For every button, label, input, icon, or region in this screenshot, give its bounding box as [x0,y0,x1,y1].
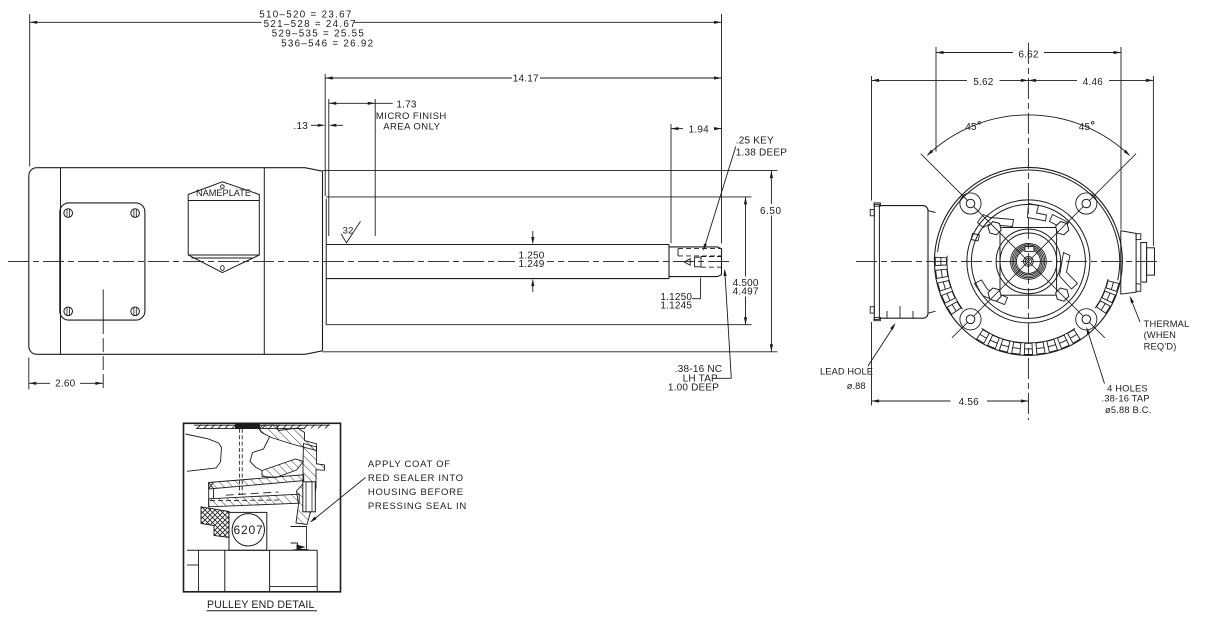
svg-text:PRESSING SEAL IN: PRESSING SEAL IN [368,501,467,512]
detail: hex bolt right [303,482,316,512]
svg-text:ø5.88 B.C.: ø5.88 B.C. [1105,405,1151,415]
extension line at flange face [324,74,326,196]
end view outer inner circle (smooth top arc) [938,170,1120,280]
thermal housing [1121,231,1155,294]
note 4 HOLES .38-16 TAP 5.88 B.C. with leader [1086,327,1151,415]
svg-text:AREA ONLY: AREA ONLY [383,122,440,133]
motor body (side view) [29,168,323,355]
dimension 6.50 [760,171,782,352]
svg-text:1.94: 1.94 [689,124,710,135]
svg-text:(WHEN: (WHEN [1144,330,1177,340]
detail: bell housing section (hatched) [250,425,325,487]
extension line micro finish end [374,99,376,236]
svg-text:.38-16 TAP: .38-16 TAP [1102,394,1150,404]
svg-text:.13: .13 [293,121,308,132]
svg-text:14.17: 14.17 [513,74,539,85]
detail: seal block left (cross hatched) [201,507,229,538]
dimension 5.62 [872,76,1029,201]
note MICRO FINISH AREA ONLY [376,111,447,133]
dimension .13 [293,121,343,132]
shaft [326,245,721,279]
dimension 4.56 [872,322,1029,408]
svg-text:MICRO FINISH: MICRO FINISH [376,111,447,122]
detail: bottom housing lines [187,550,317,591]
hub circles [996,229,1061,294]
svg-text:1.249: 1.249 [518,259,544,270]
dimension 1.250 / 1.249 shaft diameter [515,231,547,292]
svg-text:4.497: 4.497 [733,287,759,298]
svg-text:6.62: 6.62 [1018,49,1039,60]
svg-text:4 HOLES: 4 HOLES [1107,383,1148,393]
svg-text:1.73: 1.73 [396,100,417,111]
svg-text:1.00 DEEP: 1.00 DEEP [668,383,719,394]
svg-text:5.62: 5.62 [973,77,994,88]
svg-text:REQ'D): REQ'D) [1144,342,1177,352]
detail: frame section top band [194,424,330,429]
svg-text:536–546 = 26.92: 536–546 = 26.92 [281,38,374,49]
dimension 14.17 [325,74,721,85]
extension line micro finish start [328,99,330,236]
extension line at shaft end [721,14,723,244]
pulley end detail title [207,599,318,611]
svg-text:45: 45 [1079,122,1091,133]
dimension frame lengths 23.67/24.67/25.55/26.92 [30,9,722,49]
extension lines 4.500 dia [326,196,751,198]
pulley end detail border [184,423,341,592]
dimension 4.46 [1028,76,1153,246]
note .25 KEY 1.38 DEEP with leader [703,136,787,252]
end view outer circle [934,167,1122,355]
svg-text:NAMEPLATE: NAMEPLATE [196,188,251,198]
extension line left (frame dims) [29,14,31,167]
svg-text:4.46: 4.46 [1083,77,1104,88]
svg-text:1.1245: 1.1245 [660,300,692,311]
svg-text:2.60: 2.60 [55,379,76,390]
svg-text:6207: 6207 [234,523,264,537]
tap hole at shaft end [684,257,721,268]
square around hub [1000,228,1057,296]
hex bolts [988,222,1069,302]
end view vertical centerline [1027,43,1029,420]
svg-text:6.50: 6.50 [760,206,782,217]
detail: tapered sleeve (hatched) [209,475,304,507]
svg-text:LEAD HOLE: LEAD HOLE [820,367,873,377]
detail: tap hidden lines [239,429,242,495]
svg-text:45: 45 [965,122,977,133]
svg-text:HOUSING BEFORE: HOUSING BEFORE [368,487,464,498]
detail: bearing 6207 [229,512,267,550]
note THERMAL WHEN REQD with leader [1130,296,1190,352]
surface finish symbol 32 [341,221,361,242]
svg-text:THERMAL: THERMAL [1144,319,1190,329]
note .38-16 NC LH TAP 1.00 DEEP with leader [668,269,731,394]
svg-text:4.56: 4.56 [959,397,980,408]
svg-text:APPLY COAT OF: APPLY COAT OF [368,459,451,470]
dimension 45 deg arc [927,115,1131,156]
dimension 1.1250 / 1.1245 with leader [660,278,700,312]
bearing circles [1011,244,1047,280]
svg-text:RED SEALER INTO: RED SEALER INTO [368,473,464,484]
detail: frame left profile [186,434,222,471]
cooling fins [935,256,1119,355]
detail: shaft hidden edges [210,499,280,502]
note APPLY COAT OF RED SEALER with leader [310,459,467,522]
nameplate [188,182,259,273]
svg-text:PULLEY END DETAIL: PULLEY END DETAIL [207,599,315,611]
note LEAD HOLE .88 with leader [820,323,896,391]
conduit box (end view) [870,203,935,321]
keyway in bore [1025,247,1034,252]
dimension 1.73 micro finish [329,100,417,111]
dimension 4.500 / 4.497 [733,197,759,325]
bolt holes with bosses [960,193,1097,330]
dimension 1.94 [671,124,722,135]
keyway hidden lines [678,249,722,256]
vent slots [971,204,1078,305]
extension lines 6.50 dia [323,170,778,172]
diagonal centerlines 45 deg [921,154,1136,338]
flange face line [325,199,327,325]
conduit box centerline (dashed) [102,320,104,389]
conduit box (side view) [60,203,145,320]
detail: seal pocket right (hatched) [291,484,317,550]
extension line key start [670,124,672,243]
dimension 6.62 [936,47,1121,230]
end view horizontal centerline [856,260,1160,262]
shaft centerline [8,261,731,263]
center circles [1024,257,1034,267]
C-face ring circles [967,200,1090,323]
svg-text:.25 KEY: .25 KEY [736,136,774,147]
svg-text:ø.88: ø.88 [847,381,866,391]
dimension 2.60 [29,358,103,390]
svg-text:1.38 DEEP: 1.38 DEEP [736,147,787,158]
